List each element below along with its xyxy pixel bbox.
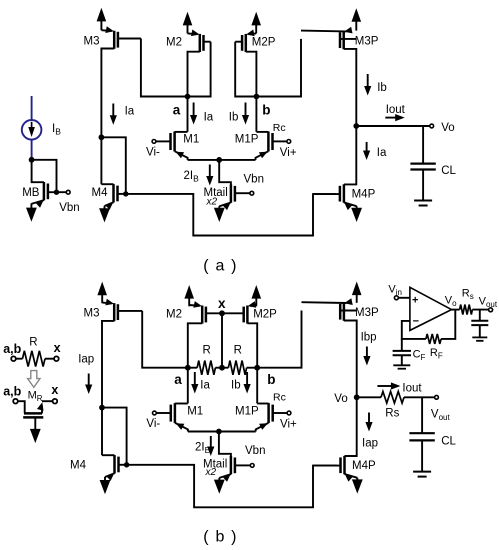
svg-text:Vout: Vout [479,295,498,309]
wire Vo to Rs (b) [357,396,381,398]
svg-text:b: b [267,372,275,387]
node M3 drain / M4 gate junction [99,134,105,140]
node tail junction (b) [216,429,222,435]
wire tail to Mtail drain (b) [219,432,231,457]
wire tail to Mtail drain [219,160,231,185]
ground below M4 (b) [104,477,106,481]
svg-text:+: + [412,295,418,307]
svg-text:Vo: Vo [334,393,347,405]
svg-text:Ia: Ia [377,147,387,159]
svg-text:x: x [54,341,61,355]
resistor R left (b) [188,367,197,369]
wire M3 gate to node a line [141,39,188,97]
inset wire Rs to Vout [472,309,488,311]
svg-text:M1P: M1P [235,405,259,417]
wire M4P drain up to Vo (b) [345,397,357,456]
transistor M4 [112,184,115,202]
svg-text:M4: M4 [70,460,87,472]
current arrow 2IB [209,165,211,178]
inset wire RF to inverting input [402,321,426,339]
svg-text:MR: MR [28,389,43,403]
transistor Mtail [230,184,233,202]
transistor M4P [343,184,346,202]
svg-text:Vo: Vo [445,295,457,309]
wire M4 gate loop [101,137,125,194]
terminal Vbn of Mtail (b) [250,464,254,468]
wire MB diode connection [32,160,57,192]
ground below M4 [104,206,106,210]
svg-text:Iap: Iap [78,354,94,366]
wire M2P drain down to node b (b) [247,323,257,367]
svg-text:Rs: Rs [385,408,399,420]
svg-text:M4: M4 [92,187,109,199]
svg-text:M3: M3 [84,35,100,47]
node M4 gate junction (b) [124,462,129,467]
svg-text:Ia: Ia [125,105,135,117]
svg-text:−: − [413,315,419,327]
inset resistor Rs [460,305,473,315]
svg-text:M4P: M4P [352,189,376,201]
transistor M2 [199,34,202,52]
wire M3 drain down to M4 (b) [102,321,114,455]
svg-text:IB: IB [52,123,61,137]
svg-text:M2P: M2P [253,309,277,321]
node b junction [254,94,260,100]
svg-text:Vo: Vo [441,122,454,134]
transistor M2P [245,34,248,52]
svg-text:x2: x2 [205,467,217,478]
svg-text:Iap: Iap [362,438,378,450]
node a junction [185,94,191,100]
terminal Vout (b) [435,395,439,399]
svg-text:CL: CL [441,435,456,447]
wire M2 gate down to node a line [188,42,211,97]
transistor M2P (b) [246,306,249,324]
svg-text:Vbn: Vbn [245,445,265,457]
svg-text:Vin: Vin [388,284,402,298]
transistor M4 (b) [113,455,116,473]
terminal Vi+ of M1P (b) [287,411,291,415]
current arrow Ia (b) [194,372,196,386]
svg-text:R: R [234,344,242,356]
node IB to MB junction [29,157,35,163]
current arrow Ia left branch [112,104,114,117]
svg-text:( b ): ( b ) [203,529,237,546]
inset op-amp triangle U1 [410,287,452,330]
wire node b down to M1P drain (b) [256,368,258,404]
ground below Mtail [218,206,220,209]
current arrow Iap right (b) [368,413,370,424]
svg-text:Vbn: Vbn [244,174,264,186]
svg-text:M1P: M1P [235,133,259,145]
transistor M1P (b) [267,403,270,423]
svg-text:MB: MB [22,187,40,199]
svg-text:Ia: Ia [204,112,214,124]
svg-text:M4P: M4P [352,460,376,472]
svg-text:Vbn: Vbn [59,202,79,214]
node a junction (b) [185,365,191,371]
node M4 gate junction [123,191,128,196]
inset capacitor CF [401,339,403,351]
wire M3P gate to node b [256,39,301,97]
transistor M3 (b) [113,303,116,321]
svg-text:R: R [29,336,37,348]
svg-text:Vi+: Vi+ [280,419,297,431]
inset resistor RF [426,334,441,344]
power VDD arrow above M3 (b) [97,282,107,296]
svg-text:x: x [218,296,226,311]
power VDD arrow above M3P [352,8,362,22]
node b junction (b) [254,365,260,371]
svg-text:Rs: Rs [462,287,474,301]
wire node a down to M1 drain [187,97,189,132]
svg-text:M2: M2 [166,309,182,321]
svg-text:M2P: M2P [252,36,276,48]
current arrow Ib at node b [245,103,247,117]
current arrow Iout (b) [377,385,392,387]
svg-text:M1: M1 [187,405,203,417]
svg-text:Rc: Rc [273,122,286,134]
ground below CL (b) [413,471,431,473]
ground below MR [34,417,36,429]
terminal Vbn of Mtail [250,191,254,195]
wire tail node [188,159,256,161]
wire M4 gate loop (b) [102,408,127,465]
svg-text:M1: M1 [183,133,199,145]
transistor M4P (b) [343,456,346,474]
inset feedback wire from output [441,310,455,339]
power VDD arrow above M3P (b) [352,282,362,296]
current arrow Ib (b) [246,372,248,386]
node tail junction [216,157,222,163]
svg-text:Vi+: Vi+ [280,147,297,159]
node x junction (b) [219,310,225,316]
node Vo junction (b) [354,394,360,400]
svg-text:R: R [203,344,211,356]
transistor M1 [173,132,176,152]
transistor M3P (b) [343,303,346,321]
wire M4 drain [101,183,113,185]
transistor M2 (b) [201,306,204,324]
wire M3P drain down to Vo node [344,49,357,126]
svg-text:Rc: Rc [273,391,286,403]
wire gate rail M4 to M4P [126,194,336,236]
wire M3P drain down to Vo (b) [344,321,357,398]
svg-text:x: x [51,383,58,397]
svg-text:Ib: Ib [229,112,239,124]
wire MB drain [32,160,44,182]
power VDD arrow above M2P (b) [252,285,262,299]
transistor M3 [113,31,116,49]
transistor MB [43,182,46,200]
capacitor CL (b) [421,397,423,433]
svg-text:a: a [173,103,181,118]
svg-text:a,b: a,b [3,342,21,356]
wire M4 drain (b) [102,454,115,456]
svg-text:x2: x2 [206,197,218,208]
svg-text:Ibp: Ibp [361,332,377,344]
terminal Vi- of M1 [152,140,156,144]
wire M2P drain down to node b [246,52,257,97]
terminal Vbn of MB [66,190,70,194]
ground below MB [30,204,32,209]
inset terminal Vout [489,308,493,312]
svg-text:b: b [262,103,270,118]
ground below M4P [356,206,358,209]
svg-text:2IB: 2IB [195,442,211,456]
svg-text:M3P: M3P [355,35,379,47]
wire M2 drain down to node a (b) [188,323,202,367]
svg-text:M3: M3 [84,307,100,319]
wire Rs to Vout terminal (b) [404,396,435,398]
resistor R right (b) [222,367,228,369]
node resistor midpoint (b) [219,365,225,371]
capacitor CL [422,126,424,163]
current arrow Ia at node a [193,103,195,117]
terminal Vi+ of M1P [287,140,291,144]
svg-text:Vout: Vout [431,409,451,423]
terminal Vo [430,124,434,128]
inset hollow arrow down [28,371,40,388]
svg-text:Ib: Ib [231,380,241,392]
svg-text:a,b: a,b [3,384,21,398]
current arrow 2IB (b) [210,436,212,448]
wire M2 drain down to node a [188,52,200,97]
power VDD arrow above M2P [251,12,261,26]
svg-text:Vi-: Vi- [146,418,160,430]
node Vo junction [353,123,359,129]
power VDD arrow above M2 (b) [184,285,194,299]
ground below Mtail (b) [218,478,220,481]
transistor M1 (b) [174,403,177,423]
transistor M3P [342,31,345,49]
wire node a down to M1 drain (b) [187,368,189,404]
svg-text:Ib: Ib [377,82,387,94]
wire M3 drain down to M4 [101,49,114,185]
wire gate rail M4 to M4P (b) [127,465,337,508]
current arrow Ia right branch [366,142,368,152]
svg-text:M3P: M3P [355,307,379,319]
svg-text:( a ): ( a ) [203,258,237,275]
svg-text:M2: M2 [166,36,182,48]
inset ground below output cap [472,336,487,338]
svg-text:Ia: Ia [200,380,210,392]
inset ground below CF [393,364,410,366]
svg-text:2IB: 2IB [184,170,200,184]
svg-text:a: a [174,372,182,387]
wire M2P gate down to node b line [235,42,256,97]
ground below CL [414,200,432,202]
resistor Rs (b) [381,392,404,404]
wire node x down to resistor midpoint (b) [221,313,223,367]
current source IB (blue) [31,96,33,120]
power VDD arrow above M2 [183,12,193,26]
svg-text:Iout: Iout [402,382,422,394]
wire M3P gate to node b (b) [257,311,301,368]
svg-text:CL: CL [441,165,456,177]
transistor M1P [267,132,270,152]
wire tail node (b) [188,431,256,433]
svg-text:RF: RF [430,347,443,361]
svg-text:CF: CF [413,349,426,363]
ground below M4P (b) [356,478,358,481]
wire Vo node to output terminal [356,125,430,127]
wire M3 gate down to a-b line (b) [142,311,188,368]
wire node b down to M1P drain [255,97,257,132]
terminal Vi- of M1 (b) [153,411,157,415]
transistor Mtail (b) [230,456,233,474]
current arrow Ib right branch [367,74,369,88]
power VDD arrow above M3 [97,8,107,22]
wire M4P drain up to Vo [344,126,356,184]
node M3 drain / M4 gate junction (b) [99,405,105,411]
svg-text:Vi-: Vi- [146,147,160,159]
inset output load capacitor [479,310,481,321]
